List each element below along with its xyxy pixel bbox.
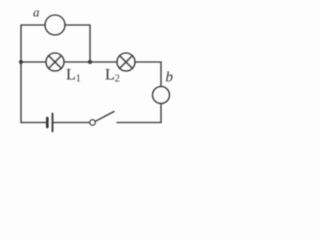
- switch S lever (open): [95, 112, 114, 122]
- wire middle-left to lamp L1: [21, 61, 46, 63]
- lamp L1: [46, 53, 64, 71]
- svg-text:L1: L1: [66, 67, 81, 85]
- switch S pivot: [90, 120, 96, 126]
- meter b (circle): [153, 87, 170, 104]
- wire vertical down to node: [89, 25, 91, 62]
- svg-text:b: b: [166, 70, 174, 86]
- battery BT (long plate): [52, 114, 54, 132]
- wire from meter a to right: [65, 24, 90, 26]
- svg-text:a: a: [33, 5, 40, 20]
- svg-text:L2: L2: [105, 67, 120, 85]
- wire left vertical: [20, 25, 22, 123]
- wire top-left horizontal: [21, 24, 45, 26]
- wire lamp L2 to right corner: [135, 61, 161, 63]
- battery BT (short plate): [46, 118, 49, 127]
- node junction dot left: [19, 60, 23, 64]
- wire below meter b: [160, 104, 162, 123]
- meter a (circle): [45, 15, 65, 35]
- lamp L2: [117, 53, 135, 71]
- wire battery to switch: [54, 122, 90, 124]
- wire lamp L1 to lamp L2: [64, 61, 117, 63]
- node junction dot middle: [88, 60, 92, 64]
- wire switch to bottom-right corner: [117, 122, 161, 124]
- wire bottom-left to battery: [21, 122, 46, 124]
- wire right vertical down to meter b: [160, 62, 162, 87]
